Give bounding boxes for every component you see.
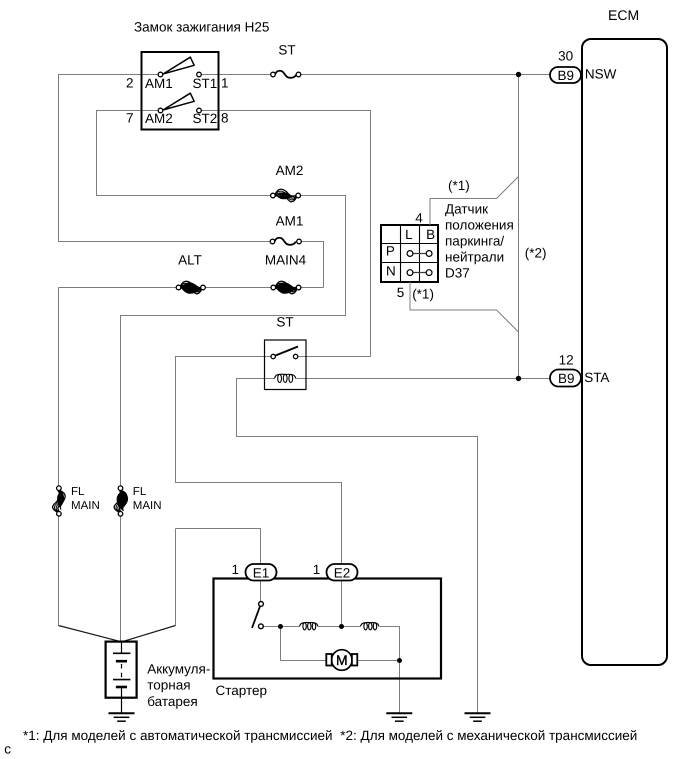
svg-text:нейтрали: нейтрали	[445, 250, 504, 265]
svg-text:E2: E2	[334, 565, 351, 580]
svg-text:MAIN4: MAIN4	[265, 252, 307, 267]
svg-text:1: 1	[313, 562, 321, 577]
svg-text:FL: FL	[71, 486, 85, 498]
svg-text:AM2: AM2	[145, 111, 173, 126]
svg-text:12: 12	[559, 352, 574, 367]
svg-text:N: N	[386, 263, 396, 278]
svg-text:ALT: ALT	[178, 252, 202, 267]
svg-text:(*1): (*1)	[412, 287, 434, 302]
svg-text:AM1: AM1	[145, 76, 173, 91]
svg-text:ST1: ST1	[193, 76, 218, 91]
svg-text:8: 8	[221, 111, 229, 126]
svg-text:B9: B9	[558, 371, 575, 386]
svg-text:(*2): (*2)	[525, 246, 547, 261]
svg-text:1: 1	[221, 76, 229, 91]
svg-text:5: 5	[397, 285, 405, 300]
svg-text:STA: STA	[584, 370, 609, 385]
svg-text:7: 7	[126, 111, 134, 126]
svg-text:MAIN: MAIN	[133, 500, 162, 512]
svg-text:B: B	[426, 227, 435, 242]
svg-text:ST2: ST2	[193, 111, 218, 126]
svg-text:30: 30	[558, 48, 573, 63]
svg-text:B9: B9	[557, 68, 574, 83]
svg-text:Датчик: Датчик	[445, 202, 488, 217]
svg-text:1: 1	[231, 562, 239, 577]
svg-text:ST: ST	[276, 315, 293, 330]
svg-text:2: 2	[126, 76, 134, 91]
svg-text:FL: FL	[133, 486, 147, 498]
svg-text:Замок зажигания H25: Замок зажигания H25	[134, 19, 269, 34]
svg-text:ST: ST	[278, 42, 295, 57]
svg-text:4: 4	[415, 211, 423, 226]
svg-text:ECM: ECM	[608, 7, 639, 23]
svg-text:D37: D37	[445, 266, 470, 281]
svg-text:(*1): (*1)	[448, 178, 470, 193]
svg-text:положения: положения	[445, 218, 514, 233]
svg-text:Аккумуля-: Аккумуля-	[147, 662, 210, 677]
svg-text:AM2: AM2	[276, 163, 304, 178]
svg-text:паркинга/: паркинга/	[445, 234, 504, 249]
svg-text:с: с	[4, 741, 11, 756]
svg-text:E1: E1	[253, 565, 270, 580]
svg-text:P: P	[386, 244, 395, 259]
svg-text:Стартер: Стартер	[216, 683, 268, 698]
svg-text:MAIN: MAIN	[71, 500, 100, 512]
svg-text:NSW: NSW	[585, 67, 617, 82]
svg-text:*2: Для моделей с механической: *2: Для моделей с механической трансмисс…	[340, 728, 637, 743]
svg-text:AM1: AM1	[276, 213, 304, 228]
svg-text:*1: Для моделей с автоматическ: *1: Для моделей с автоматической трансми…	[23, 728, 333, 743]
svg-text:торная: торная	[147, 678, 190, 693]
svg-text:M: M	[336, 652, 348, 668]
svg-text:батарея: батарея	[147, 694, 198, 709]
svg-text:L: L	[405, 227, 413, 242]
